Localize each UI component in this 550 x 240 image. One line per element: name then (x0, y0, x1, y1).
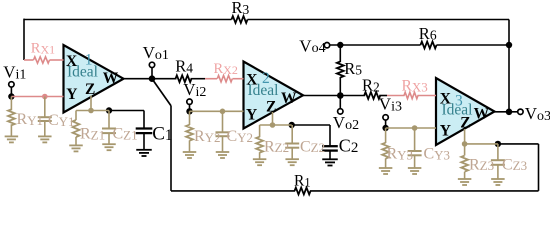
svg-text:RY2: RY2 (194, 128, 221, 145)
svg-text:Z: Z (85, 81, 95, 98)
svg-text:R1: R1 (294, 173, 311, 190)
svg-text:Ideal: Ideal (67, 63, 98, 80)
svg-text:RY1: RY1 (17, 111, 44, 128)
svg-text:Vo2: Vo2 (333, 113, 359, 133)
svg-text:R3: R3 (232, 0, 250, 17)
svg-text:RZ2: RZ2 (264, 138, 289, 155)
svg-text:CZ2: CZ2 (300, 138, 325, 155)
svg-text:R6: R6 (419, 24, 437, 43)
svg-text:CZ1: CZ1 (113, 126, 138, 143)
svg-text:Y: Y (440, 122, 451, 139)
svg-text:RZ1: RZ1 (80, 126, 105, 143)
svg-text:CZ3: CZ3 (502, 156, 527, 173)
svg-text:RX2: RX2 (214, 61, 238, 77)
svg-text:Ideal: Ideal (248, 82, 279, 99)
svg-text:Z: Z (266, 99, 276, 116)
svg-text:Vo3: Vo3 (525, 104, 550, 124)
svg-text:R2: R2 (362, 76, 380, 95)
svg-text:CY3: CY3 (424, 146, 451, 163)
svg-text:RY3: RY3 (387, 146, 414, 163)
svg-text:R5: R5 (344, 59, 362, 78)
svg-text:Ideal: Ideal (442, 102, 473, 119)
svg-text:Vi2: Vi2 (183, 80, 206, 100)
svg-text:W: W (281, 90, 297, 107)
svg-text:Vi3: Vi3 (379, 95, 402, 115)
svg-text:Vi1: Vi1 (3, 63, 26, 83)
svg-text:Y: Y (66, 86, 77, 103)
svg-text:RZ3: RZ3 (469, 156, 494, 173)
svg-text:C1: C1 (152, 123, 172, 144)
svg-text:R4: R4 (175, 57, 193, 76)
svg-text:Y: Y (246, 107, 257, 124)
svg-text:W: W (474, 105, 490, 122)
svg-text:CY1: CY1 (48, 112, 75, 129)
svg-text:RX3: RX3 (402, 78, 428, 95)
svg-text:Vo4: Vo4 (299, 36, 325, 56)
svg-text:C2: C2 (339, 136, 359, 157)
svg-text:CY2: CY2 (227, 128, 254, 145)
svg-text:Vo1: Vo1 (143, 43, 169, 63)
svg-text:RX1: RX1 (31, 41, 55, 57)
svg-text:W: W (103, 70, 119, 87)
